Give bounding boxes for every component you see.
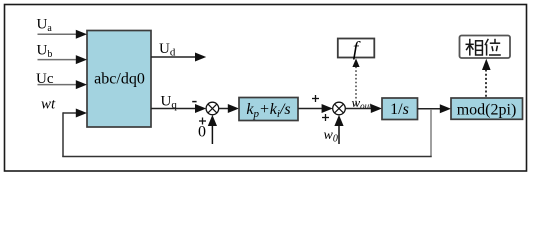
dashed measurement line to phase display (482, 59, 491, 97)
svg-text:0: 0 (198, 124, 206, 141)
wire 0 input arrow up into S1 (208, 115, 217, 144)
block mod(2pi) (451, 98, 523, 119)
svg-text:kp+ki/s: kp+ki/s (246, 101, 290, 120)
svg-text:abc/dq0: abc/dq0 (94, 71, 145, 88)
plus sign above-left of junction S2 (312, 95, 319, 102)
wire Ua input (38, 30, 88, 39)
block integrator 1/s (382, 98, 418, 120)
minus sign at junction S1 (192, 101, 196, 103)
svg-text:wt: wt (41, 97, 56, 113)
border frame (5, 5, 527, 172)
wire feedback tee down from 1/s output (430, 109, 432, 157)
wire w0 input arrow up into S2 (334, 115, 343, 144)
svg-text:1/s: 1/s (390, 101, 409, 118)
block f (frequency display) (338, 38, 375, 60)
summing junction S1 (206, 102, 219, 115)
wire Uq to summing junction (151, 104, 206, 113)
glyph 位 (485, 39, 501, 56)
wire S1 to PI block (219, 104, 239, 113)
wire S2 to integrator 1/s (345, 104, 382, 113)
wire Ud output (151, 53, 206, 62)
wire Uc input (38, 80, 88, 89)
block abc/dq0 (87, 31, 151, 128)
svg-text:mod(2pi): mod(2pi) (457, 101, 517, 118)
block PI controller kp+ki/s (239, 98, 298, 121)
wire PI block to S2 (298, 104, 333, 113)
wire Ub input (38, 55, 88, 64)
wire wt input from feedback (63, 109, 87, 118)
plus sign below-left of junction S2 (322, 114, 329, 121)
wire feedback left rise to wt (62, 112, 64, 157)
wire 1/s to mod(2pi) (418, 104, 452, 113)
block phase display 相位 (460, 36, 511, 59)
glyph 相 (466, 39, 483, 56)
dashed measurement line to f block (352, 59, 359, 106)
plus sign below junction S1 (199, 118, 206, 125)
summing junction S2 (333, 102, 346, 115)
wire feedback bottom run (62, 156, 431, 158)
